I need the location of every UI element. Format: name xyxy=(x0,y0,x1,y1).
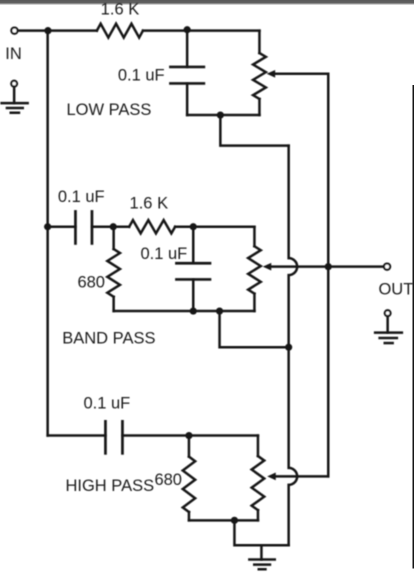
svg-text:0.1 uF: 0.1 uF xyxy=(140,245,187,263)
wire BP bottom tap to ground bus xyxy=(220,311,289,347)
ground bottom xyxy=(249,545,274,569)
node dot IN xyxy=(44,27,51,34)
svg-text:HIGH PASS: HIGH PASS xyxy=(65,477,154,495)
wire wiper bus (to OUT) xyxy=(327,74,330,477)
ground OUT xyxy=(375,310,402,343)
potentiometer P3 (high pass) xyxy=(252,436,265,521)
capacitor C4 0.1uF (high pass series) xyxy=(105,421,258,453)
top grey border bar xyxy=(0,0,414,5)
svg-text:OUT: OUT xyxy=(378,280,413,298)
resistor R1 1.6K xyxy=(97,24,143,38)
wiper arrow P1 xyxy=(267,70,329,78)
terminal IN xyxy=(11,28,17,34)
wiper arrow P3 xyxy=(267,473,328,481)
wire node to R1 xyxy=(48,29,97,32)
svg-text:680: 680 xyxy=(154,471,182,489)
svg-text:0.1 uF: 0.1 uF xyxy=(58,188,105,206)
ground bus with hops xyxy=(289,146,298,546)
svg-text:IN: IN xyxy=(5,45,22,63)
wire HP bottom tap to ground bus xyxy=(234,520,288,545)
capacitor C1 0.1uF (low pass) xyxy=(170,31,203,115)
svg-text:LOW PASS: LOW PASS xyxy=(66,101,151,119)
svg-text:1.6 K: 1.6 K xyxy=(130,195,169,213)
potentiometer P1 (low pass) xyxy=(253,31,266,115)
ground IN xyxy=(2,81,28,113)
wire left bus xyxy=(46,31,49,436)
node dot wiper bus xyxy=(325,263,332,270)
wire IN to node xyxy=(18,29,48,32)
node dot HP rail xyxy=(185,432,192,439)
resistor R3 680 (band pass) xyxy=(107,227,120,311)
capacitor C3 0.1uF (band pass shunt) xyxy=(176,227,210,311)
node dot BP tap xyxy=(44,223,51,230)
node dot A xyxy=(110,223,117,230)
resistor R2 1.6K (band pass) xyxy=(129,220,175,233)
wiper arrow P2 + wire to OUT xyxy=(263,263,384,271)
node dot B xyxy=(190,223,197,230)
svg-text:BAND PASS: BAND PASS xyxy=(62,330,155,348)
terminal OUT xyxy=(384,264,390,270)
node dot ground bus xyxy=(285,344,292,351)
wire HP top rail left xyxy=(48,434,106,437)
wire LP bottom rail xyxy=(187,114,259,117)
capacitor C2 0.1uF (band pass series) xyxy=(75,211,129,243)
wire R2 to pot P2 xyxy=(175,226,254,229)
svg-text:0.1 uF: 0.1 uF xyxy=(118,66,165,84)
wire BP bottom rail xyxy=(114,310,255,313)
node dot top rail xyxy=(184,26,191,33)
node dot C3 bottom xyxy=(190,307,197,314)
resistor R4 680 (high pass) xyxy=(183,436,195,521)
node dot LP bottom xyxy=(217,111,224,118)
potentiometer P2 (band pass) xyxy=(248,227,261,311)
svg-text:0.1 uF: 0.1 uF xyxy=(83,395,130,413)
wire BP tap xyxy=(48,226,76,229)
right edge frame line xyxy=(413,85,414,569)
node dot BP bottom tap xyxy=(216,307,223,314)
svg-text:1.6 K: 1.6 K xyxy=(101,1,140,19)
wire LP bottom tap to ground bus xyxy=(220,115,288,146)
svg-text:680: 680 xyxy=(77,273,105,291)
wire R1 to pot P1 top xyxy=(143,29,260,32)
node dot HP bottom xyxy=(231,517,238,524)
wire HP bottom rail xyxy=(189,519,258,522)
